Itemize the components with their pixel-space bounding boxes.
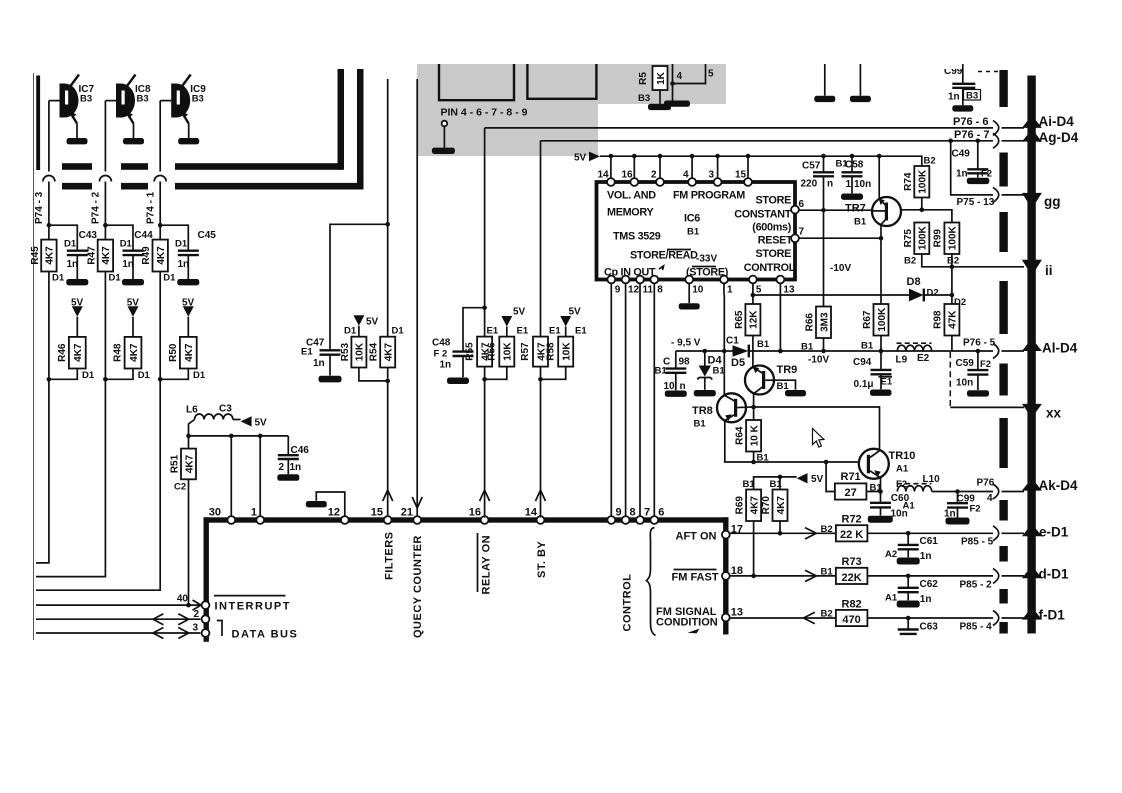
svg-text:L6: L6 bbox=[186, 405, 198, 416]
svg-text:D1: D1 bbox=[344, 326, 357, 337]
ground bbox=[277, 474, 299, 481]
wire pin30 vertical bbox=[230, 436, 232, 518]
svg-text:D1: D1 bbox=[163, 273, 176, 284]
wire ii line bbox=[922, 254, 1024, 267]
svg-text:5V: 5V bbox=[569, 307, 582, 318]
svg-text:5V: 5V bbox=[127, 297, 140, 308]
svg-text:3: 3 bbox=[709, 170, 715, 181]
svg-text:220: 220 bbox=[801, 179, 818, 190]
bus dash segments row2 bbox=[62, 183, 92, 190]
svg-text:4K7: 4K7 bbox=[184, 454, 195, 473]
svg-text:E1: E1 bbox=[881, 377, 893, 388]
svg-text:TR9: TR9 bbox=[777, 364, 798, 376]
svg-text:C94: C94 bbox=[853, 357, 872, 368]
svg-text:C58: C58 bbox=[845, 160, 864, 171]
svg-text:10n: 10n bbox=[891, 508, 908, 519]
wire R70 bottom to AFT row bbox=[779, 521, 781, 533]
svg-text:8: 8 bbox=[657, 285, 663, 296]
svg-text:VOL. AND: VOL. AND bbox=[607, 189, 656, 201]
svg-text:1: 1 bbox=[846, 179, 852, 190]
node bbox=[670, 81, 675, 86]
svg-text:P85 - 2: P85 - 2 bbox=[960, 580, 993, 591]
svg-text:11: 11 bbox=[643, 285, 654, 296]
svg-text:R57: R57 bbox=[520, 342, 531, 361]
hop bbox=[993, 568, 999, 583]
svg-text:D1: D1 bbox=[82, 370, 95, 381]
capacitor C46 bbox=[287, 436, 289, 455]
label DATA BUS bbox=[217, 621, 222, 637]
hop bbox=[993, 187, 999, 202]
svg-text:1: 1 bbox=[727, 285, 733, 296]
IC6 bottom pins bbox=[607, 276, 615, 284]
svg-text:A1: A1 bbox=[896, 464, 909, 475]
resistor R65 bbox=[745, 304, 760, 336]
svg-text:FM FAST: FM FAST bbox=[672, 572, 719, 584]
main right bus bbox=[1027, 76, 1035, 634]
svg-text:B1: B1 bbox=[743, 479, 756, 490]
hop bbox=[993, 120, 999, 135]
svg-text:7: 7 bbox=[799, 227, 805, 238]
svg-text:12: 12 bbox=[628, 285, 640, 296]
svg-text:B2: B2 bbox=[924, 156, 936, 167]
pin stub circle bbox=[442, 121, 448, 127]
IC6 right pins bbox=[791, 206, 799, 214]
svg-text:100K: 100K bbox=[918, 169, 929, 194]
pin 14 bbox=[537, 516, 545, 524]
svg-text:4K7: 4K7 bbox=[156, 246, 167, 265]
svg-text:xx: xx bbox=[1046, 406, 1062, 421]
svg-text:5V: 5V bbox=[255, 418, 268, 429]
svg-text:2: 2 bbox=[651, 170, 657, 181]
svg-text:470: 470 bbox=[842, 614, 860, 626]
svg-text:ii: ii bbox=[1045, 263, 1053, 278]
svg-text:TR10: TR10 bbox=[889, 450, 916, 462]
wire col1 mid bbox=[48, 272, 50, 380]
ground bbox=[946, 518, 970, 525]
wire col3 mid bbox=[159, 272, 161, 380]
svg-text:2: 2 bbox=[193, 609, 199, 620]
svg-text:D1: D1 bbox=[392, 326, 405, 337]
inductor L6 bbox=[189, 420, 195, 436]
hop P74-2 bbox=[99, 176, 111, 182]
svg-text:1n: 1n bbox=[67, 259, 79, 270]
resistor R51 bbox=[188, 436, 190, 449]
wire R69 bottom to FM FAST row bbox=[753, 521, 755, 576]
svg-text:21: 21 bbox=[401, 507, 413, 519]
svg-text:RELAY ON: RELAY ON bbox=[481, 535, 493, 595]
svg-text:5: 5 bbox=[756, 285, 762, 296]
ground bbox=[897, 558, 920, 565]
dash-dot boundary bars bbox=[999, 70, 1007, 107]
svg-text:P76 - 7: P76 - 7 bbox=[954, 129, 989, 141]
wire TR7 collector to R74/R99 bbox=[901, 210, 952, 223]
wire pin12 vertical bbox=[316, 492, 345, 518]
node f-D1 bbox=[1022, 607, 1042, 620]
resistor R75 bbox=[914, 223, 929, 255]
wire pin5 bbox=[752, 283, 754, 304]
svg-text:C59: C59 bbox=[956, 358, 975, 369]
svg-text:P76: P76 bbox=[977, 478, 995, 489]
svg-text:12: 12 bbox=[328, 507, 340, 519]
tuner box 1 bbox=[439, 64, 514, 100]
svg-text:R46: R46 bbox=[57, 343, 68, 362]
svg-text:Ak-D4: Ak-D4 bbox=[1039, 478, 1079, 493]
svg-text:A1: A1 bbox=[885, 592, 898, 603]
svg-text:RESET-: RESET- bbox=[758, 234, 796, 246]
node xx bbox=[1022, 404, 1042, 418]
wire C57/R66 bbox=[823, 338, 825, 351]
wire R56 bottom bbox=[485, 367, 507, 380]
svg-text:1n: 1n bbox=[920, 594, 932, 605]
pin 1 bbox=[256, 516, 264, 524]
svg-text:FILTERS: FILTERS bbox=[384, 531, 396, 580]
wire xx shield bbox=[949, 352, 951, 407]
IC6 top pin leads bbox=[610, 156, 612, 179]
svg-text:4K7: 4K7 bbox=[384, 342, 395, 361]
wire col1 upper bbox=[48, 101, 50, 172]
svg-text:D1: D1 bbox=[193, 370, 206, 381]
svg-text:4K7: 4K7 bbox=[776, 496, 787, 515]
hop bbox=[993, 526, 999, 541]
svg-text:C57: C57 bbox=[802, 160, 821, 171]
capacitor C63 bbox=[907, 618, 909, 629]
svg-text:R71: R71 bbox=[841, 471, 861, 483]
pin 16 bbox=[630, 178, 638, 186]
wire bbox=[730, 617, 993, 619]
wire st-by vertical (pin14 / P76-7) bbox=[540, 141, 542, 337]
wire bbox=[443, 126, 445, 147]
svg-text:C62: C62 bbox=[920, 579, 939, 590]
svg-text:R98: R98 bbox=[933, 310, 944, 329]
hop bbox=[993, 611, 999, 626]
svg-text:R53: R53 bbox=[340, 342, 351, 361]
IC6 box bbox=[597, 182, 796, 280]
5V supply R58 bbox=[560, 316, 571, 327]
wire bbox=[49, 369, 77, 380]
wire P75-13 bbox=[951, 141, 993, 195]
wire 5V to R69/R70 bbox=[780, 476, 797, 478]
hop bbox=[993, 133, 999, 148]
pin 16 bbox=[481, 516, 489, 524]
wire 5V rail bbox=[600, 156, 922, 166]
svg-text:5V: 5V bbox=[182, 297, 195, 308]
svg-text:B1: B1 bbox=[757, 339, 770, 350]
svg-text:R82: R82 bbox=[842, 598, 862, 610]
transistor TR10 bbox=[859, 449, 889, 479]
svg-text:14: 14 bbox=[598, 170, 610, 181]
svg-text:10K: 10K bbox=[503, 342, 514, 361]
svg-text:C61: C61 bbox=[920, 536, 939, 547]
svg-text:10: 10 bbox=[664, 381, 676, 392]
pin 15 bbox=[384, 516, 392, 524]
resistor R45 bbox=[41, 240, 56, 272]
resistor R72 bbox=[836, 525, 868, 541]
svg-text:R50: R50 bbox=[168, 343, 179, 362]
svg-text:4K7: 4K7 bbox=[73, 343, 84, 362]
svg-text:47K: 47K bbox=[948, 310, 959, 329]
svg-text:27: 27 bbox=[844, 487, 856, 499]
svg-text:C49: C49 bbox=[952, 149, 971, 160]
arrow bbox=[805, 528, 816, 539]
ground bbox=[694, 390, 716, 396]
resistor R98 bbox=[944, 304, 959, 336]
node Ag-D4 bbox=[1022, 129, 1042, 142]
wire col3 lower bbox=[36, 379, 160, 590]
ground bbox=[319, 376, 342, 383]
pin 14 bbox=[607, 178, 615, 186]
node bbox=[385, 222, 390, 227]
svg-text:IC6: IC6 bbox=[684, 213, 700, 225]
svg-text:C2: C2 bbox=[174, 482, 186, 493]
node col1 bbox=[47, 223, 52, 228]
ground bbox=[123, 138, 144, 144]
svg-text:A2: A2 bbox=[885, 549, 897, 560]
pin 4 lead bbox=[672, 64, 674, 101]
svg-text:STORE: STORE bbox=[756, 248, 792, 260]
5V supply R53 bbox=[353, 315, 364, 326]
svg-text:D5: D5 bbox=[731, 357, 745, 369]
svg-text:B1: B1 bbox=[687, 227, 700, 238]
resistor R46 bbox=[69, 337, 86, 369]
resistor R49 bbox=[153, 240, 168, 272]
5V supply col1 bbox=[72, 306, 83, 317]
capacitor C57 bbox=[823, 156, 825, 172]
svg-text:1K: 1K bbox=[656, 71, 667, 85]
svg-text:1: 1 bbox=[251, 507, 257, 519]
arrow up FILTERS bbox=[383, 490, 393, 501]
svg-text:4K7: 4K7 bbox=[749, 496, 760, 515]
ground bbox=[122, 279, 144, 285]
transistor TR7 bbox=[878, 156, 880, 199]
wire pin21 vertical bbox=[416, 79, 418, 518]
wire relay-on vertical (pin16 / P76-6) bbox=[484, 128, 486, 337]
ground bbox=[432, 148, 455, 154]
svg-text:P85 - 4: P85 - 4 bbox=[960, 622, 993, 633]
pin 4 bbox=[688, 178, 696, 186]
pin 3 bbox=[202, 629, 210, 637]
wire TR8 emitter down-left bbox=[725, 420, 859, 462]
svg-text:DATA BUS: DATA BUS bbox=[232, 629, 299, 641]
capacitor C59 bbox=[977, 351, 979, 369]
capacitor C43 bbox=[49, 225, 77, 249]
arrow left bbox=[804, 612, 815, 623]
wire R53 bottom bbox=[359, 368, 388, 381]
svg-text:2: 2 bbox=[279, 462, 285, 473]
svg-text:4K7: 4K7 bbox=[184, 343, 195, 362]
wire pin13 down bbox=[779, 283, 781, 351]
svg-text:R55: R55 bbox=[464, 342, 475, 361]
opto IC8 bbox=[116, 84, 135, 118]
svg-text:CONTROL: CONTROL bbox=[622, 574, 634, 632]
svg-text:-33V: -33V bbox=[696, 254, 717, 265]
ground bbox=[870, 390, 892, 396]
capacitor C45 bbox=[160, 225, 188, 249]
svg-text:4: 4 bbox=[677, 71, 683, 82]
svg-text:STORE/READ: STORE/READ bbox=[630, 250, 698, 262]
ground bbox=[447, 378, 469, 385]
pin 40 bbox=[202, 601, 210, 609]
wire bbox=[659, 90, 661, 104]
svg-text:R69: R69 bbox=[735, 496, 746, 515]
wire col2 mid bbox=[104, 272, 106, 380]
main bus L bbox=[204, 517, 729, 522]
node col3 bbox=[158, 223, 163, 228]
svg-text:C44: C44 bbox=[134, 230, 153, 241]
label INTERRUPT bbox=[214, 595, 286, 597]
diode D4 zener bbox=[704, 351, 706, 366]
wire R98 top bbox=[951, 267, 953, 304]
svg-text:PIN 4 - 6 - 7 - 8 - 9: PIN 4 - 6 - 7 - 8 - 9 bbox=[441, 107, 528, 119]
svg-text:R49: R49 bbox=[141, 246, 152, 265]
svg-text:B1: B1 bbox=[854, 217, 867, 228]
node Al-D4 bbox=[1022, 339, 1042, 352]
hop P74-3 bbox=[43, 176, 55, 182]
svg-text:9: 9 bbox=[616, 507, 622, 519]
svg-text:13: 13 bbox=[731, 607, 743, 619]
pin 9 bbox=[607, 516, 615, 524]
thick bar left margin bbox=[36, 76, 40, 171]
wire R67 bottom bbox=[880, 336, 882, 352]
svg-text:6: 6 bbox=[658, 507, 664, 519]
svg-text:1n: 1n bbox=[948, 92, 960, 103]
svg-text:C3: C3 bbox=[219, 404, 232, 415]
svg-text:B3: B3 bbox=[192, 94, 204, 105]
svg-text:d-D1: d-D1 bbox=[1039, 567, 1069, 582]
svg-text:4K7: 4K7 bbox=[129, 343, 140, 362]
svg-text:E1: E1 bbox=[487, 326, 499, 337]
capacitor C62 bbox=[907, 576, 909, 587]
ground bbox=[841, 194, 863, 200]
wire -9.5V / -10V line bbox=[676, 350, 733, 352]
wire R74 bottom bbox=[921, 198, 923, 210]
svg-text:R5: R5 bbox=[638, 72, 649, 85]
pin 18 bbox=[722, 572, 730, 580]
svg-text:P85 - 5: P85 - 5 bbox=[961, 536, 994, 547]
ground bbox=[66, 279, 88, 285]
svg-text:10: 10 bbox=[692, 285, 704, 296]
svg-text:B2: B2 bbox=[821, 608, 833, 619]
ground bbox=[967, 390, 989, 396]
svg-text:n: n bbox=[680, 381, 686, 392]
svg-text:R58: R58 bbox=[545, 342, 556, 361]
resistor R66 bbox=[816, 307, 831, 339]
resistor R54 bbox=[380, 337, 395, 368]
svg-text:TR8: TR8 bbox=[692, 405, 713, 417]
resistor R69 bbox=[746, 490, 761, 522]
ground bbox=[952, 105, 973, 111]
wire bbox=[49, 100, 60, 102]
hop bbox=[993, 484, 999, 499]
resistor R71 bbox=[826, 462, 835, 492]
svg-text:1n: 1n bbox=[440, 360, 452, 371]
wire TR8 base/collector row bbox=[745, 407, 880, 449]
wire col1 lower bbox=[36, 379, 49, 563]
arrow bbox=[193, 600, 202, 610]
resistor R55 bbox=[477, 337, 492, 367]
arrow bbox=[805, 570, 816, 581]
resistor R50 bbox=[180, 337, 197, 369]
pin 6 bbox=[650, 516, 658, 524]
svg-text:3M3: 3M3 bbox=[819, 312, 830, 332]
svg-text:D1: D1 bbox=[138, 370, 151, 381]
svg-text:P74 - 1: P74 - 1 bbox=[146, 191, 157, 224]
svg-text:8: 8 bbox=[630, 507, 636, 519]
svg-text:10K: 10K bbox=[355, 342, 366, 361]
svg-text:22 K: 22 K bbox=[840, 529, 863, 541]
node gg bbox=[1022, 193, 1042, 209]
node Ak-D4 bbox=[1022, 478, 1042, 491]
wire pin10 ground bbox=[688, 283, 690, 303]
svg-text:E2: E2 bbox=[917, 353, 930, 364]
svg-text:D2: D2 bbox=[927, 287, 939, 298]
svg-text:1n: 1n bbox=[122, 259, 134, 270]
bus dash segments row1 bbox=[62, 163, 92, 170]
svg-text:D1: D1 bbox=[175, 239, 188, 250]
opto IC7 bbox=[59, 84, 78, 118]
node e-D1 bbox=[1022, 524, 1042, 537]
wire bbox=[105, 100, 116, 102]
brace bbox=[647, 528, 656, 636]
svg-text:B3: B3 bbox=[137, 94, 149, 105]
svg-text:(600ms): (600ms) bbox=[752, 221, 791, 233]
svg-text:R75: R75 bbox=[903, 229, 914, 248]
pin 5 lead bbox=[673, 64, 706, 84]
svg-text:Al-D4: Al-D4 bbox=[1042, 340, 1078, 355]
ground bbox=[967, 178, 990, 184]
svg-text:B1: B1 bbox=[757, 453, 770, 464]
pin 3 bbox=[714, 178, 722, 186]
svg-text:E1: E1 bbox=[575, 326, 587, 337]
capacitor C48 bbox=[463, 308, 485, 351]
5V supply col3 bbox=[183, 306, 194, 317]
svg-text:13: 13 bbox=[783, 285, 795, 296]
svg-text:B2: B2 bbox=[904, 256, 916, 267]
ground stub B bbox=[859, 64, 861, 96]
svg-text:STORE: STORE bbox=[756, 194, 792, 206]
capacitor C58 bbox=[851, 156, 853, 172]
resistor R48 bbox=[125, 337, 142, 369]
svg-text:TMS 3529: TMS 3529 bbox=[613, 231, 661, 243]
svg-text:R56: R56 bbox=[487, 342, 498, 361]
svg-text:9: 9 bbox=[615, 285, 621, 296]
pin 30 bbox=[227, 516, 235, 524]
resistor R64 bbox=[753, 407, 755, 420]
svg-text:R45: R45 bbox=[30, 246, 41, 265]
arrow down bbox=[412, 497, 422, 508]
svg-text:C45: C45 bbox=[198, 230, 217, 241]
svg-text:R70: R70 bbox=[761, 496, 772, 515]
svg-text:100K: 100K bbox=[877, 307, 888, 332]
svg-text:L10: L10 bbox=[923, 474, 941, 485]
svg-text:Ag-D4: Ag-D4 bbox=[1039, 130, 1079, 145]
svg-text:16: 16 bbox=[622, 170, 634, 181]
svg-text:C43: C43 bbox=[79, 230, 98, 241]
wire pin7 bbox=[799, 237, 881, 239]
svg-text:10n: 10n bbox=[854, 179, 871, 190]
wire pin15 vertical lower bbox=[387, 368, 389, 518]
svg-text:C46: C46 bbox=[291, 445, 310, 456]
svg-text:gg: gg bbox=[1044, 194, 1061, 209]
svg-text:C1: C1 bbox=[726, 336, 739, 347]
capacitor C47 bbox=[320, 349, 341, 351]
diode D8 bbox=[909, 289, 924, 302]
svg-text:F 2: F 2 bbox=[434, 349, 448, 360]
svg-text:R73: R73 bbox=[842, 556, 862, 568]
svg-text:R48: R48 bbox=[113, 343, 124, 362]
pin 17 bbox=[722, 531, 730, 539]
resistor R99 bbox=[944, 223, 959, 255]
svg-text:4K7: 4K7 bbox=[101, 246, 112, 265]
